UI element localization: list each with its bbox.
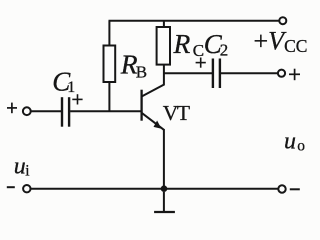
wire collector to C2 — [164, 72, 212, 74]
terminal output plus — [278, 70, 285, 77]
svg-text:u: u — [14, 154, 26, 180]
terminal +VCC — [279, 17, 286, 24]
svg-text:o: o — [297, 137, 305, 154]
ground — [154, 192, 175, 212]
wire top supply rail — [109, 20, 280, 22]
plus sign C2 polarity — [196, 58, 206, 68]
capacitor C2 — [213, 59, 220, 89]
terminal output minus — [278, 185, 285, 192]
wire C2 to output terminal — [221, 72, 278, 74]
svg-text:1: 1 — [67, 79, 75, 96]
plus sign C1 polarity — [72, 94, 82, 104]
resistor RB — [104, 46, 116, 83]
svg-text:+VCC: +VCC — [254, 27, 308, 57]
svg-text:i: i — [25, 163, 30, 180]
svg-text:u: u — [284, 128, 296, 154]
svg-text:2: 2 — [220, 41, 229, 60]
terminal input plus — [23, 107, 31, 115]
svg-text:B: B — [136, 63, 147, 82]
svg-text:C: C — [193, 41, 204, 60]
minus sign output terminal — [290, 188, 300, 190]
wire collector vertical — [163, 65, 165, 85]
transistor VT — [142, 84, 165, 130]
terminal input minus — [23, 185, 30, 192]
wire emitter vertical — [163, 129, 165, 189]
junction dot emitter-ground node — [161, 185, 168, 192]
wire RB bottom to base node — [108, 82, 110, 112]
wire RB top drop — [108, 21, 110, 46]
wire bottom rail — [31, 188, 279, 190]
minus sign input terminal — [7, 186, 15, 188]
svg-text:R: R — [173, 28, 191, 59]
svg-text:VT: VT — [163, 101, 190, 125]
wire input to C1 — [31, 110, 61, 112]
plus sign input terminal — [7, 103, 17, 114]
wire RC top drop — [163, 21, 165, 28]
resistor RC — [157, 27, 170, 65]
capacitor C1 — [62, 97, 69, 127]
wire base — [70, 110, 141, 112]
plus sign output terminal — [289, 69, 300, 81]
